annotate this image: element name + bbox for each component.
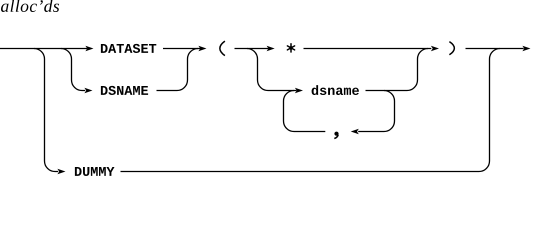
wire DSNAME exit joining main rail bbox=[157, 49, 199, 91]
variable dsname bbox=[312, 85, 359, 95]
arrow into DSNAME bbox=[84, 88, 92, 93]
wire star to close paren bbox=[304, 48, 432, 50]
wire after DATASET bbox=[163, 48, 201, 50]
wire dsname exit joining star rail bbox=[366, 49, 429, 91]
keyword DATASET bbox=[101, 44, 156, 53]
keyword DSNAME bbox=[101, 86, 148, 95]
branch curve down to dsname bbox=[247, 49, 296, 91]
star choice bbox=[287, 44, 294, 52]
keyword DUMMY bbox=[75, 167, 115, 176]
arrow into open paren bbox=[198, 46, 206, 51]
arrow into close paren bbox=[431, 46, 439, 51]
repeat loop right side bbox=[358, 91, 394, 132]
comma separator bbox=[334, 132, 338, 139]
arrow into dsname bbox=[295, 88, 303, 93]
arrow final bbox=[522, 46, 530, 51]
close paren bbox=[449, 42, 454, 55]
arrow into DATASET bbox=[85, 46, 93, 51]
repeat loop left side bbox=[284, 91, 326, 132]
arrow into DUMMY bbox=[57, 169, 65, 174]
arrow left on repeat loop bbox=[351, 129, 359, 134]
title alloc'ds bbox=[1, 0, 59, 12]
wire DUMMY exit joining exit rail bbox=[121, 49, 501, 172]
branch curve to DSNAME bbox=[61, 49, 85, 91]
wire main entry rail bbox=[0, 48, 87, 50]
branch curve to DUMMY bbox=[34, 49, 58, 172]
wire exit rail bbox=[466, 48, 524, 50]
open paren bbox=[220, 41, 225, 56]
wire paren to star bbox=[235, 48, 269, 50]
arrow into star bbox=[267, 46, 275, 51]
